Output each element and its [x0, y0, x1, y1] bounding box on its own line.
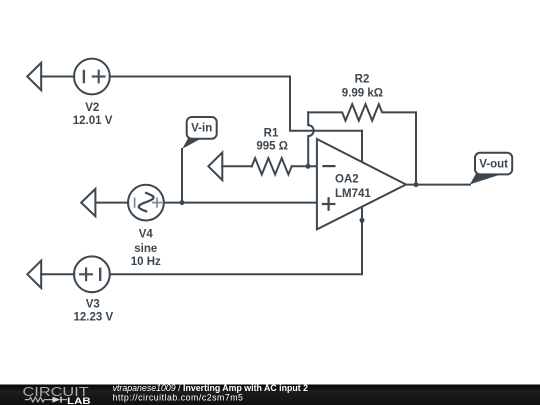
V2 minus bar	[83, 71, 85, 82]
ground for R1	[208, 153, 222, 181]
svg-text:995 Ω: 995 Ω	[256, 141, 288, 153]
svg-text:OA2: OA2	[335, 174, 359, 186]
svg-text:10 Hz: 10 Hz	[131, 256, 161, 268]
junction node V-in tap	[180, 200, 185, 205]
svg-text:R1: R1	[264, 128, 279, 140]
V2 plus sign	[93, 71, 105, 83]
footer bar	[0, 385, 540, 405]
V4 plus sign	[153, 198, 161, 206]
wire op-amp output	[406, 184, 471, 186]
voltage source V3 body	[74, 256, 110, 292]
resistor R1	[252, 158, 292, 174]
wire R1 ground to R1	[222, 165, 252, 167]
wire V4 ground to V4	[95, 202, 128, 204]
wire R1 to op-amp minus input	[292, 165, 317, 167]
svg-text:sine: sine	[134, 243, 157, 255]
V4 minus bar	[134, 198, 136, 207]
svg-text:R2: R2	[355, 73, 370, 85]
op-amp OA2 triangle	[317, 139, 406, 229]
resistor R2	[308, 104, 416, 121]
voltage source V2 body	[74, 59, 110, 95]
svg-text:12.23 V: 12.23 V	[73, 311, 113, 323]
node flag V-out box	[475, 153, 512, 175]
voltage source V4 body	[128, 185, 164, 221]
svg-text:V3: V3	[86, 298, 100, 310]
wire V2 to top corner	[110, 77, 362, 131]
svg-text:http://circuitlab.com/c2sm7m5: http://circuitlab.com/c2sm7m5	[113, 393, 244, 403]
svg-text:vtrapanese1009 / Inverting Amp: vtrapanese1009 / Inverting Amp with AC i…	[113, 383, 309, 393]
wire V3 to op-amp V- pin corner	[110, 203, 362, 274]
node flag V-in box	[187, 117, 217, 139]
node flag V-in pointer	[182, 137, 201, 149]
ground for V3	[27, 261, 41, 288]
svg-text:V4: V4	[139, 229, 154, 241]
V3 minus bar	[99, 269, 101, 280]
svg-text:V-out: V-out	[479, 159, 508, 171]
wire op-amp V+ pin	[361, 131, 363, 164]
V3 plus sign	[80, 269, 92, 281]
svg-text:LM741: LM741	[335, 188, 371, 200]
wire V4 to op-amp plus input	[164, 202, 317, 204]
op-amp plus input glyph	[323, 198, 334, 209]
svg-text:9.99 kΩ: 9.99 kΩ	[342, 87, 383, 99]
ground for V2	[27, 63, 41, 90]
wire R2 right lead down to output	[415, 112, 417, 184]
node flag V-out pointer	[470, 173, 501, 185]
svg-text:V-in: V-in	[191, 123, 212, 135]
wire V2 ground to V2	[41, 76, 74, 78]
wire V-in tap	[181, 149, 183, 203]
junction node minus input	[306, 164, 311, 169]
junction node on V- pin	[360, 218, 365, 223]
logo waveform resistor and diode	[25, 397, 67, 403]
op-amp minus input glyph	[323, 165, 334, 167]
svg-text:LAB: LAB	[67, 396, 90, 405]
wire R2 left lead down with hop over V2 wire	[308, 112, 314, 166]
svg-text:V2: V2	[85, 102, 99, 114]
wire V3 ground to V3	[41, 273, 74, 275]
svg-text:12.01 V: 12.01 V	[73, 115, 113, 127]
V4 sine squiggle	[139, 193, 154, 211]
ground for V4	[81, 189, 95, 216]
junction node output	[414, 182, 419, 187]
